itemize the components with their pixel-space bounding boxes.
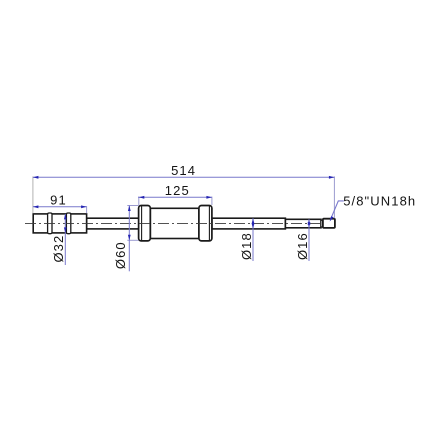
dimension 514 arrows — [33, 176, 335, 179]
svg-text:125: 125 — [165, 183, 190, 198]
leader line 5/8"UN18h — [330, 201, 344, 220]
extension line 91 right — [86, 206, 88, 213]
extension lines 125 — [138, 197, 140, 205]
right flange Ø60 — [199, 206, 212, 241]
shaft section Ø16 — [285, 219, 321, 228]
leader arrowhead — [330, 216, 334, 221]
svg-text:514: 514 — [171, 163, 196, 178]
svg-text:Ø60: Ø60 — [113, 241, 128, 269]
dimension 91 line — [33, 206, 87, 208]
svg-text:Ø32: Ø32 — [51, 235, 66, 263]
shaft section Ø18 right segment — [212, 218, 286, 229]
svg-text:Ø16: Ø16 — [295, 232, 310, 260]
dimension Ø32 line — [64, 214, 66, 265]
extension ticks Ø60 — [127, 205, 138, 207]
dimension Ø18 line — [252, 218, 254, 261]
dimension Ø16 line — [308, 219, 310, 261]
centerline — [25, 222, 322, 224]
extension line gray (left of 514 and 91) — [32, 176, 34, 213]
svg-text:Ø18: Ø18 — [239, 232, 254, 260]
threaded end 5/8" — [323, 219, 335, 228]
dimension Ø32 arrows — [64, 214, 67, 233]
ring band 2 on Ø32 — [66, 213, 70, 234]
dimension 514 line — [33, 176, 335, 178]
dimension 91 arrows — [33, 205, 87, 208]
svg-text:91: 91 — [50, 192, 67, 207]
dimension 125 line — [138, 196, 212, 198]
thread relief groove — [321, 220, 323, 227]
ring band 1 on Ø32 — [48, 213, 52, 234]
shaft section Ø18 left segment — [87, 218, 139, 229]
dimension Ø60 arrows — [128, 206, 131, 241]
hammer body Ø54 — [150, 208, 199, 238]
left flange Ø60 — [139, 206, 151, 241]
dimension Ø18 arrows — [252, 218, 255, 229]
left flange chamfer line — [141, 206, 143, 240]
extension line 514 right — [333, 176, 335, 218]
svg-text:5/8"UN18h: 5/8"UN18h — [343, 193, 416, 208]
dimension Ø60 line — [128, 206, 130, 272]
right flange chamfer line — [208, 206, 210, 240]
handle cylinder Ø32 — [33, 214, 86, 233]
dimension Ø16 arrows — [308, 219, 311, 228]
dimension 125 arrows — [139, 196, 212, 199]
